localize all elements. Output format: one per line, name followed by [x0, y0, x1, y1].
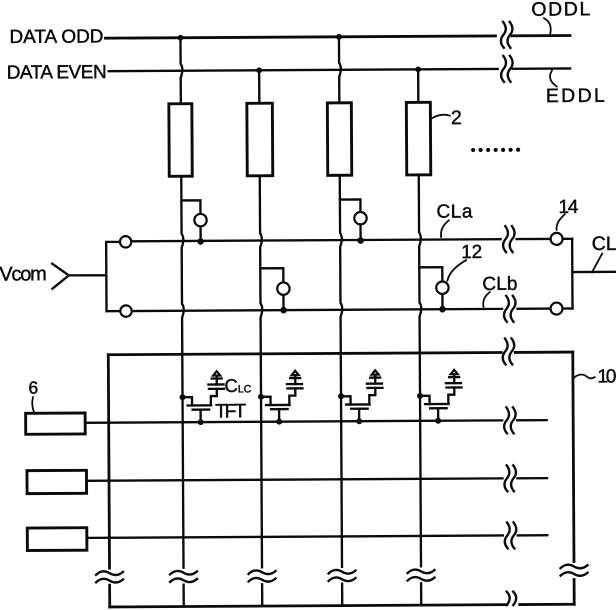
wire gate row line 2 [87, 478, 547, 481]
leader CLb [483, 292, 490, 307]
svg-text:DATA EVEN: DATA EVEN [7, 62, 107, 84]
TFT pixel cell 4 with storage capacitor [417, 370, 462, 424]
switch contact 12 column 4 to CLb [419, 267, 448, 312]
switch contact 14 on CLa [551, 233, 563, 245]
wire DATA EVEN line [109, 68, 570, 71]
leader label 2 [432, 115, 450, 119]
gate driver box 6 row 1 [26, 413, 86, 434]
leader CLa [441, 220, 449, 237]
junction dot on DATA ODD at column 3 [336, 34, 342, 40]
wire stub data odd to switch box 3 (hop over DATA EVEN) [339, 37, 341, 103]
break on panel top edge [503, 338, 515, 364]
wire CL output stub [572, 271, 615, 274]
svg-text:TFT: TFT [215, 400, 246, 422]
break on column 1 bottom [170, 571, 197, 582]
leader 6 [32, 397, 34, 413]
wire column 2 data line (hops over CLa, CLb; break near bottom) [260, 176, 264, 605]
svg-text:CL: CL [592, 233, 616, 255]
wire stub data even to switch box 4 [417, 69, 420, 102]
break on DATA EVEN line [501, 56, 513, 82]
break on column 3 bottom [329, 570, 356, 581]
break on column 2 bottom [249, 570, 276, 581]
wire stub data odd to switch box 1 (hop over DATA EVEN) [180, 38, 182, 104]
wire CLa common line [132, 239, 550, 241]
svg-text:EDDL: EDDL [546, 85, 605, 107]
svg-text:DATA ODD: DATA ODD [9, 26, 103, 48]
leader EDDL [550, 70, 557, 87]
wire Vcom feed [69, 242, 121, 311]
TFT pixel cell 3 with storage capacitor [338, 370, 383, 424]
svg-text:2: 2 [451, 107, 462, 129]
gate driver box row 3 [27, 528, 87, 551]
wire DATA ODD line [105, 35, 569, 38]
wire gate row line 3 [87, 535, 547, 538]
wire CLa to right corner [563, 238, 572, 240]
svg-text:14: 14 [558, 197, 579, 218]
svg-text:ODDL: ODDL [531, 0, 590, 21]
svg-text:6: 6 [28, 378, 38, 398]
Vcom input arrow [52, 264, 69, 289]
svg-text:10: 10 [597, 366, 616, 387]
leader 14 [556, 214, 565, 230]
break on panel left edge [96, 571, 123, 582]
switch box 4 [406, 102, 430, 175]
leader CL [592, 254, 603, 273]
leader ODDL [544, 18, 551, 35]
panel 10 right edge (break) [573, 352, 574, 604]
wire column 4 data line (hops over CLa, CLb; break near bottom) [419, 175, 423, 604]
TFT pixel cell 2 with storage capacitor [258, 371, 303, 425]
ellipsis dots [471, 148, 520, 152]
switch box 2 [247, 103, 273, 176]
TFT pixel cell 1 with storage capacitor [179, 371, 224, 425]
wire gate row line 1 [85, 420, 546, 423]
break on CLb [504, 296, 516, 322]
switch contact column 1 to CLa [181, 200, 206, 245]
break on DATA ODD line [501, 22, 513, 48]
junction dot on DATA EVEN at column 2 [256, 67, 262, 73]
junction dot on DATA EVEN at column 4 [415, 66, 421, 72]
svg-text:CLC: CLC [224, 375, 251, 396]
panel 10 bottom edge [110, 604, 574, 607]
switch contact column 3 to CLa [340, 199, 367, 244]
break on panel bottom edge [507, 592, 517, 606]
switch contact Vcom to CLb [120, 305, 131, 316]
switch contact Vcom to CLa [120, 236, 131, 247]
wire column 3 data line (hops over CLa, CLb; break near bottom) [340, 175, 344, 604]
junction dot on DATA ODD at column 1 [178, 35, 184, 41]
break on gate row line 1 [504, 407, 516, 433]
gate driver box row 2 [27, 470, 87, 493]
svg-text:12: 12 [461, 242, 482, 263]
break on panel right edge [560, 565, 587, 576]
panel 10 top edge [108, 352, 572, 355]
switch contact column 2 to CLb [260, 268, 289, 313]
svg-text:CLb: CLb [482, 274, 517, 295]
wire CLb common line [132, 309, 550, 311]
break on gate row line 3 [505, 522, 517, 548]
switch contact on CLb right [550, 303, 562, 315]
svg-text:CLa: CLa [436, 201, 473, 222]
leader 10 [573, 375, 595, 379]
switch box 3 [327, 103, 351, 176]
break on gate row line 2 [504, 465, 516, 491]
wire right vertical joining CLa and CLb [571, 239, 574, 309]
wire stub data even to switch box 2 [258, 70, 261, 103]
wire CLb to right corner [563, 307, 573, 309]
break on CLa [503, 226, 515, 252]
switch box 1 [169, 104, 192, 177]
svg-text:Vcom: Vcom [0, 263, 47, 285]
panel 10 left edge (break near bottom) [108, 355, 109, 607]
break on column 4 bottom [408, 569, 435, 580]
wire column 1 data line (hops over CLa, CLb; break near bottom) [181, 176, 185, 605]
leader label 12 [447, 260, 466, 281]
